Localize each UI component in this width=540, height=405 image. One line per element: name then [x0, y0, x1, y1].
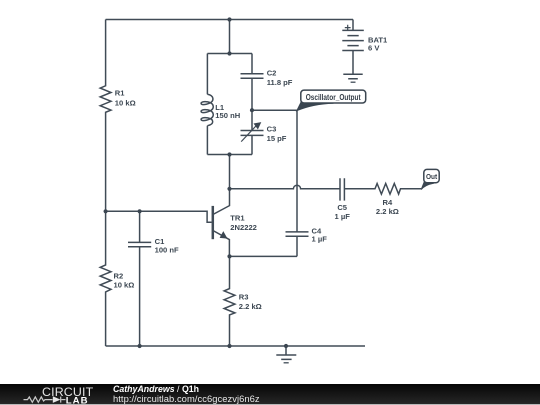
svg-text:6 V: 6 V [368, 43, 380, 52]
svg-text:2N2222: 2N2222 [230, 223, 257, 232]
svg-text:R2: R2 [114, 271, 124, 280]
svg-text:C5: C5 [337, 203, 347, 212]
svg-text:2.2 kΩ: 2.2 kΩ [376, 207, 399, 216]
svg-text:Oscillator_Output: Oscillator_Output [306, 93, 361, 102]
svg-text:150 nH: 150 nH [215, 111, 240, 120]
svg-text:Out: Out [426, 172, 438, 181]
svg-text:R4: R4 [383, 198, 393, 207]
svg-text:2.2 kΩ: 2.2 kΩ [239, 302, 262, 311]
svg-text:10 kΩ: 10 kΩ [114, 281, 135, 290]
svg-text:C2: C2 [267, 69, 277, 78]
svg-text:100 nF: 100 nF [155, 246, 179, 255]
svg-text:1 µF: 1 µF [312, 235, 328, 244]
svg-text:R1: R1 [115, 88, 125, 97]
svg-text:10 kΩ: 10 kΩ [115, 99, 136, 108]
svg-text:C3: C3 [267, 124, 277, 133]
svg-text:1 µF: 1 µF [335, 212, 351, 221]
svg-text:11.8 pF: 11.8 pF [267, 78, 293, 87]
svg-text:15 pF: 15 pF [267, 134, 287, 143]
svg-text:R3: R3 [239, 293, 249, 302]
svg-text:TR1: TR1 [230, 214, 245, 223]
